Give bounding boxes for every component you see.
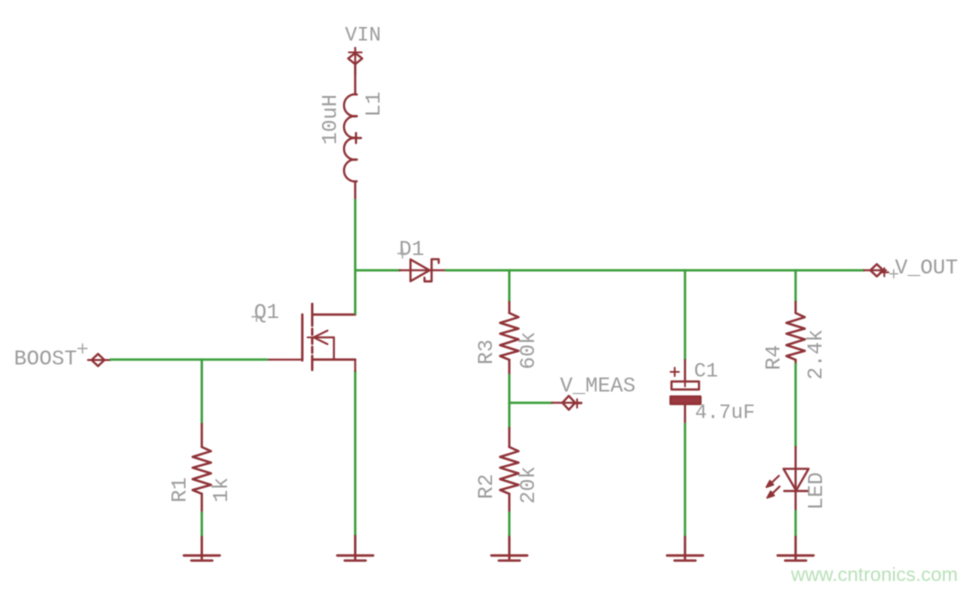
svg-text:V_MEAS: V_MEAS xyxy=(560,376,636,399)
svg-text:BOOST: BOOST xyxy=(14,349,77,372)
wire R4 to LED xyxy=(794,364,796,447)
terminal BOOST xyxy=(88,354,111,366)
svg-text:R2: R2 xyxy=(476,474,499,499)
wire BOOST to gate xyxy=(111,358,268,360)
wire LED to ground xyxy=(794,511,796,537)
wire L1 to node xyxy=(354,200,356,270)
terminal VIN xyxy=(348,48,362,75)
svg-text:Q1: Q1 xyxy=(254,302,279,325)
wire node to V_MEAS terminal xyxy=(509,402,552,404)
svg-text:2.4k: 2.4k xyxy=(806,329,829,379)
wire node to D1 anode xyxy=(355,269,400,271)
wire bus down to C1 xyxy=(684,270,686,360)
wire Q1 source down xyxy=(354,371,356,536)
svg-text:V_OUT: V_OUT xyxy=(895,258,958,281)
inductor L1 xyxy=(344,64,361,200)
svg-text:60k: 60k xyxy=(518,332,541,370)
resistor R4 xyxy=(786,302,804,364)
ground below Q1 xyxy=(337,536,373,561)
resistor R3 xyxy=(500,302,518,375)
LED xyxy=(766,447,808,511)
wire bus down to R3 xyxy=(508,270,510,302)
wire R3 to V_MEAS node xyxy=(508,375,510,428)
ground below C1 xyxy=(667,537,703,561)
transistor Q1 (n-mosfet) xyxy=(267,304,355,370)
svg-text:R4: R4 xyxy=(764,345,787,370)
ground below LED xyxy=(778,537,814,561)
wire bus down to R4 xyxy=(794,270,796,302)
capacitor C1 xyxy=(671,360,701,424)
ground below R1 xyxy=(184,537,220,561)
cross Q1 origin xyxy=(252,312,261,321)
wire R1 to ground xyxy=(201,513,203,538)
ground below R2 xyxy=(491,537,527,561)
svg-text:10uH: 10uH xyxy=(320,94,343,144)
terminal V_MEAS xyxy=(552,396,581,410)
svg-text:20k: 20k xyxy=(518,466,541,504)
cross D1 origin xyxy=(398,249,407,258)
cross V_OUT label origin xyxy=(890,270,898,278)
wire Q1 drain up xyxy=(354,270,356,313)
svg-text:www.cntronics.com: www.cntronics.com xyxy=(790,564,958,586)
svg-text:1k: 1k xyxy=(211,477,234,502)
svg-text:R3: R3 xyxy=(476,339,499,364)
cross BOOST origin xyxy=(78,344,87,353)
wire junction down to R1 xyxy=(201,360,203,424)
svg-text:C1: C1 xyxy=(694,361,718,384)
svg-text:R1: R1 xyxy=(169,477,192,502)
svg-text:4.7uF: 4.7uF xyxy=(695,402,755,425)
pin Q1 source xyxy=(354,360,356,371)
resistor R2 xyxy=(500,428,518,513)
wire D1 to V_OUT bus xyxy=(446,269,864,271)
wire R2 to ground xyxy=(508,513,510,538)
wire C1 to ground xyxy=(684,424,686,537)
svg-text:L1: L1 xyxy=(363,92,386,117)
terminal V_OUT xyxy=(864,264,888,276)
resistor R1 xyxy=(193,424,211,513)
diode D1 (schottky) xyxy=(400,259,447,281)
svg-text:LED: LED xyxy=(806,472,829,510)
svg-text:VIN: VIN xyxy=(345,25,381,48)
